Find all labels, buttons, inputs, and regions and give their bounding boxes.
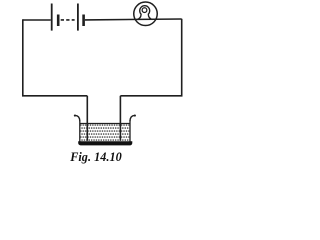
liquid: electrolyte fill in beaker xyxy=(80,124,129,141)
battery B1 plate: tall positive plate 1 xyxy=(51,4,53,31)
liquid: surface line xyxy=(80,123,130,125)
beaker: thick black base xyxy=(78,141,132,145)
caption: Fig. 14.10 xyxy=(65,150,127,165)
wire: left vertical drop xyxy=(22,19,24,96)
beaker: left rim curl xyxy=(75,115,80,120)
battery B1: dashed link (more cells) xyxy=(61,19,75,21)
bulb L1 filament: loop outline xyxy=(137,6,153,20)
beaker: right rim curl xyxy=(130,115,135,120)
battery B1 plate: short negative plate 1 xyxy=(57,15,60,27)
battery B1 plate: tall positive plate 2 xyxy=(77,4,79,31)
wire: battery to bulb and through to right corner xyxy=(85,18,182,21)
beaker: right wall xyxy=(129,120,131,141)
battery B1 plate: short negative plate 2 xyxy=(82,15,85,27)
wire: bottom-right horizontal xyxy=(120,95,182,97)
bulb L1: glass envelope circle xyxy=(134,2,158,26)
electrode: left electrode into beaker xyxy=(86,96,88,141)
electrode: right electrode tip inside liquid xyxy=(119,124,121,141)
electrode: right electrode into beaker xyxy=(119,96,121,141)
electrode: left electrode tip inside liquid xyxy=(86,124,88,141)
beaker: left wall xyxy=(79,120,81,141)
wire: right vertical drop xyxy=(181,19,183,96)
bulb L1 filament: small inner circle xyxy=(142,8,147,13)
wire: bottom-left horizontal xyxy=(22,95,87,97)
wire: top-left from corner to battery xyxy=(23,19,51,21)
